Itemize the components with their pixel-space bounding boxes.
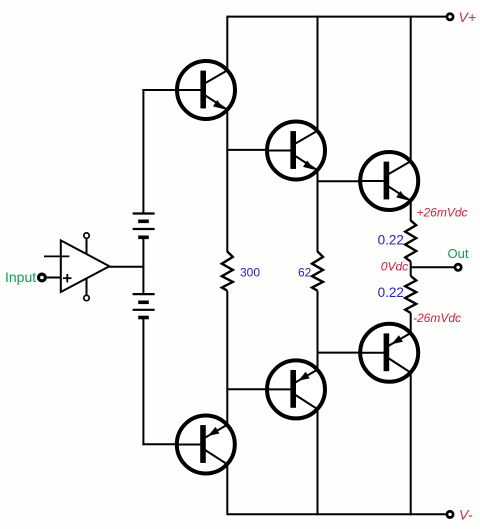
wire Q6 collector to bottom rail	[410, 373, 412, 515]
op-amp U1	[61, 240, 110, 292]
svg-text:V-: V-	[459, 506, 473, 522]
terminal Input	[39, 274, 46, 281]
svg-text:0Vdc: 0Vdc	[381, 259, 408, 273]
battery B1 plate long lower	[133, 228, 155, 230]
battery B2 plate short bottom	[138, 316, 149, 320]
battery B2 plate short	[138, 300, 149, 304]
resistor R300	[222, 252, 233, 291]
svg-text:+26mVdc: +26mVdc	[417, 205, 468, 219]
terminal Out	[455, 264, 461, 270]
wire Q1 emitter down / node to Q2 base / to resistor 300	[226, 109, 228, 252]
wire Q4 base	[142, 443, 178, 445]
op-amp positive supply pin	[86, 238, 88, 254]
transistor Q1 npn	[177, 61, 235, 119]
wire bottom rail	[227, 513, 449, 515]
wire Q2 emitter to Q3 base node	[317, 169, 319, 252]
terminal V-	[447, 511, 453, 517]
battery B2 plate long top	[133, 293, 155, 295]
wire node to Q3 base	[317, 180, 362, 182]
transistor Q2 npn	[267, 122, 325, 180]
transistor Q6 pnp	[360, 324, 418, 382]
transistor Q5 pnp	[267, 360, 325, 418]
svg-text:0.22: 0.22	[378, 285, 404, 300]
transistor Q4 pnp	[177, 416, 235, 474]
svg-text:Input: Input	[5, 269, 36, 285]
op-amp inverting input stub and minus sign	[44, 255, 69, 257]
resistor R0.22 lower	[405, 276, 416, 313]
wire Q4 collector to bottom rail	[226, 463, 228, 515]
wire node to Q6 base	[317, 352, 362, 354]
wire Q2 base	[226, 149, 268, 151]
op-amp plus sign	[63, 274, 72, 282]
battery B1 plate short bottom	[138, 236, 149, 240]
op-amp negative supply pin	[86, 278, 88, 296]
svg-text:V+: V+	[459, 9, 477, 25]
wire lower 0.22 to Q6 emitter	[410, 313, 412, 333]
battery B2 plate long lower	[133, 309, 155, 311]
wire input to op-amp	[45, 277, 61, 279]
wire Q2 collector to top rail	[317, 16, 319, 132]
wire bias line Q1 base corner	[142, 89, 144, 214]
resistor R62	[312, 252, 323, 291]
svg-text:62: 62	[298, 265, 312, 279]
wire op-amp output	[108, 266, 144, 268]
wire Q3 emitter to resistor	[410, 200, 412, 221]
wire out node to Out terminal	[411, 266, 455, 268]
wire top rail	[227, 16, 449, 18]
resistor R0.22 upper	[405, 221, 416, 262]
wire battery B2 to Q4 base corner	[142, 319, 144, 445]
wire Q3 collector to top rail	[410, 16, 412, 162]
svg-text:Out: Out	[448, 246, 469, 261]
svg-text:0.22: 0.22	[378, 233, 404, 248]
wire between 0.22 resistors / out node	[410, 262, 412, 276]
terminal V+	[447, 14, 453, 20]
wire Q5 base	[226, 388, 268, 390]
wire Q5 collector to bottom rail	[317, 408, 319, 515]
transistor Q3 npn	[360, 152, 418, 210]
svg-text:300: 300	[240, 265, 260, 279]
svg-text:-26mVdc: -26mVdc	[413, 311, 461, 325]
wire Q1 collector to top rail	[226, 16, 228, 71]
wire Q1 base	[142, 89, 178, 91]
battery B1 plate short	[138, 220, 149, 224]
wire resistor 300 to Q5 base node to Q4 emitter	[226, 291, 228, 426]
wire resistor 62 down to Q6 base node to Q5 emitter	[317, 291, 319, 370]
wire battery B1 to output node	[142, 239, 144, 294]
battery B1 plate long top	[133, 212, 155, 214]
